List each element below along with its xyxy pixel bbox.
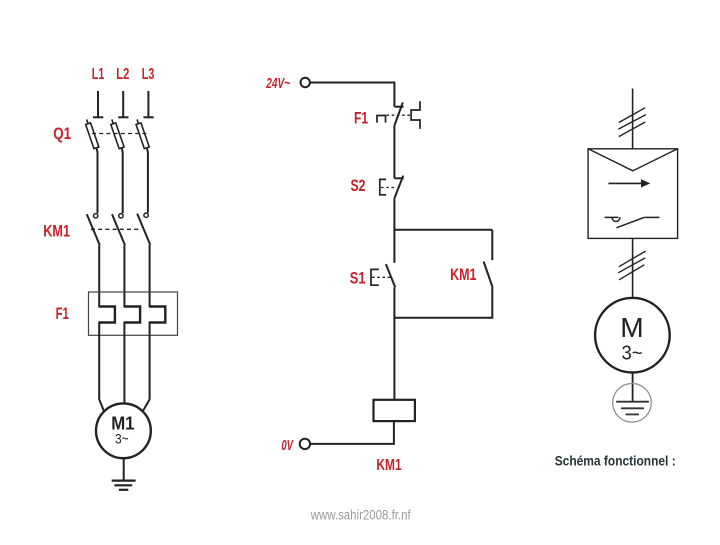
svg-text:www.sahir2008.fr.nf: www.sahir2008.fr.nf bbox=[310, 508, 411, 523]
F1 trip dashed link bbox=[387, 114, 411, 116]
svg-text:KM1: KM1 bbox=[450, 266, 476, 284]
wire motor to earth bbox=[632, 373, 634, 402]
wire F1 to motor pole 2 bbox=[123, 322, 125, 405]
wire below box bbox=[632, 238, 634, 297]
svg-text:S2: S2 bbox=[351, 177, 366, 195]
wire S1 lower bbox=[393, 287, 395, 318]
terminal tick L2 bbox=[118, 116, 128, 118]
wire KM1 to F1 pole 3 bbox=[149, 245, 151, 308]
wire L2 incoming bbox=[122, 91, 124, 117]
chevron bbox=[588, 149, 678, 171]
wire 24V horizontal bbox=[310, 83, 395, 107]
svg-text:F1: F1 bbox=[354, 110, 368, 128]
F1 NC contact blade bbox=[394, 103, 402, 126]
F1 trip actuator bracket bbox=[377, 116, 386, 123]
wire S2 to branch bbox=[393, 198, 395, 231]
S1 pushbutton bracket bbox=[371, 269, 379, 285]
terminal tick L3 bbox=[143, 116, 153, 118]
svg-text:3~: 3~ bbox=[115, 431, 129, 447]
S2 dashed link bbox=[381, 187, 395, 189]
KM1 contact pole 3 blade bbox=[137, 214, 150, 245]
wire S1 to coil bbox=[393, 318, 395, 400]
fuse-disconnector Q1 pole 3 bbox=[135, 119, 150, 149]
svg-text:3~: 3~ bbox=[622, 343, 643, 365]
F1 heater element pole 3 bbox=[150, 307, 166, 323]
wire Q1 to KM1 pole 1 bbox=[96, 148, 97, 213]
triple slash top bbox=[618, 108, 646, 137]
wire top bbox=[632, 89, 634, 149]
svg-text:L1: L1 bbox=[92, 66, 105, 83]
svg-text:KM1: KM1 bbox=[376, 457, 401, 474]
fuse-disconnector Q1 pole 2 bbox=[109, 119, 124, 149]
svg-text:Q1: Q1 bbox=[53, 124, 71, 143]
switch symbol bbox=[605, 216, 619, 218]
wire F1 to motor pole 1 bbox=[99, 322, 104, 412]
svg-text:0V: 0V bbox=[281, 437, 294, 454]
earth circle bbox=[613, 384, 652, 423]
F1 heater element pole 2 bbox=[124, 307, 140, 323]
terminal 0V circle bbox=[300, 439, 310, 449]
KM1 contact pole 3 terminal circle bbox=[144, 213, 148, 217]
KM1 contact pole 1 terminal circle bbox=[94, 214, 98, 218]
fuse-disconnector Q1 pole 1 bbox=[84, 119, 99, 149]
thermal relay F1 box bbox=[89, 292, 178, 335]
S2 NC contact tick bbox=[394, 177, 403, 179]
branch bottom horizontal wire bbox=[394, 317, 492, 319]
svg-text:M: M bbox=[620, 312, 643, 343]
KM1 linkage dashed bbox=[91, 228, 142, 230]
wire KM1 to F1 pole 1 bbox=[98, 245, 100, 307]
branch top horizontal wire bbox=[394, 229, 492, 231]
wire coil to 0V bbox=[310, 421, 394, 444]
svg-text:L3: L3 bbox=[142, 66, 155, 83]
KM1 contact pole 2 blade bbox=[112, 214, 125, 245]
motor M1 circle bbox=[96, 403, 151, 458]
function box bbox=[588, 149, 678, 239]
KM1 contact pole 2 terminal circle bbox=[119, 214, 123, 218]
wire S2 branch to S1 bbox=[393, 230, 395, 263]
coil KM1 rect bbox=[374, 400, 415, 421]
S2 pushbutton bracket bbox=[380, 179, 386, 194]
wire KM1 aux lower bbox=[491, 287, 493, 319]
KM1 aux NO blade bbox=[484, 262, 493, 287]
S1 NO blade bbox=[386, 264, 395, 287]
Q1 linkage dashed bbox=[92, 133, 148, 135]
svg-text:24V~: 24V~ bbox=[266, 75, 291, 92]
wire F1 to S2 bbox=[393, 126, 395, 179]
svg-text:Schéma fonctionnel :: Schéma fonctionnel : bbox=[555, 453, 676, 469]
F1 heater element pole 1 bbox=[99, 307, 115, 323]
svg-text:KM1: KM1 bbox=[43, 222, 70, 241]
wire L3 incoming bbox=[147, 91, 149, 117]
arrow bbox=[608, 182, 642, 184]
wire Q1 to KM1 pole 3 bbox=[147, 148, 148, 213]
wire F1 to motor pole 3 bbox=[143, 322, 150, 412]
triple slash bottom bbox=[618, 251, 645, 280]
terminal 24V circle bbox=[301, 78, 310, 87]
terminal tick L1 bbox=[93, 116, 103, 118]
motor M circle bbox=[595, 298, 670, 373]
wire KM1 to F1 pole 2 bbox=[123, 245, 125, 307]
svg-text:S1: S1 bbox=[350, 270, 366, 288]
KM1 contact pole 1 blade bbox=[87, 214, 100, 245]
svg-text:F1: F1 bbox=[56, 304, 69, 323]
F1 NC contact tick bbox=[394, 106, 403, 108]
wire motor to ground bbox=[123, 458, 125, 480]
ground symbol bbox=[112, 481, 136, 490]
wire Q1 to KM1 pole 2 bbox=[122, 148, 123, 213]
wire L1 incoming bbox=[97, 91, 99, 117]
svg-text:L2: L2 bbox=[116, 66, 129, 83]
S2 NC contact blade bbox=[394, 176, 403, 199]
wire KM1 aux upper bbox=[491, 230, 493, 260]
earth bars bbox=[616, 402, 649, 415]
S1 dashed link bbox=[372, 276, 391, 278]
F1 reset S-bracket bbox=[411, 101, 420, 129]
